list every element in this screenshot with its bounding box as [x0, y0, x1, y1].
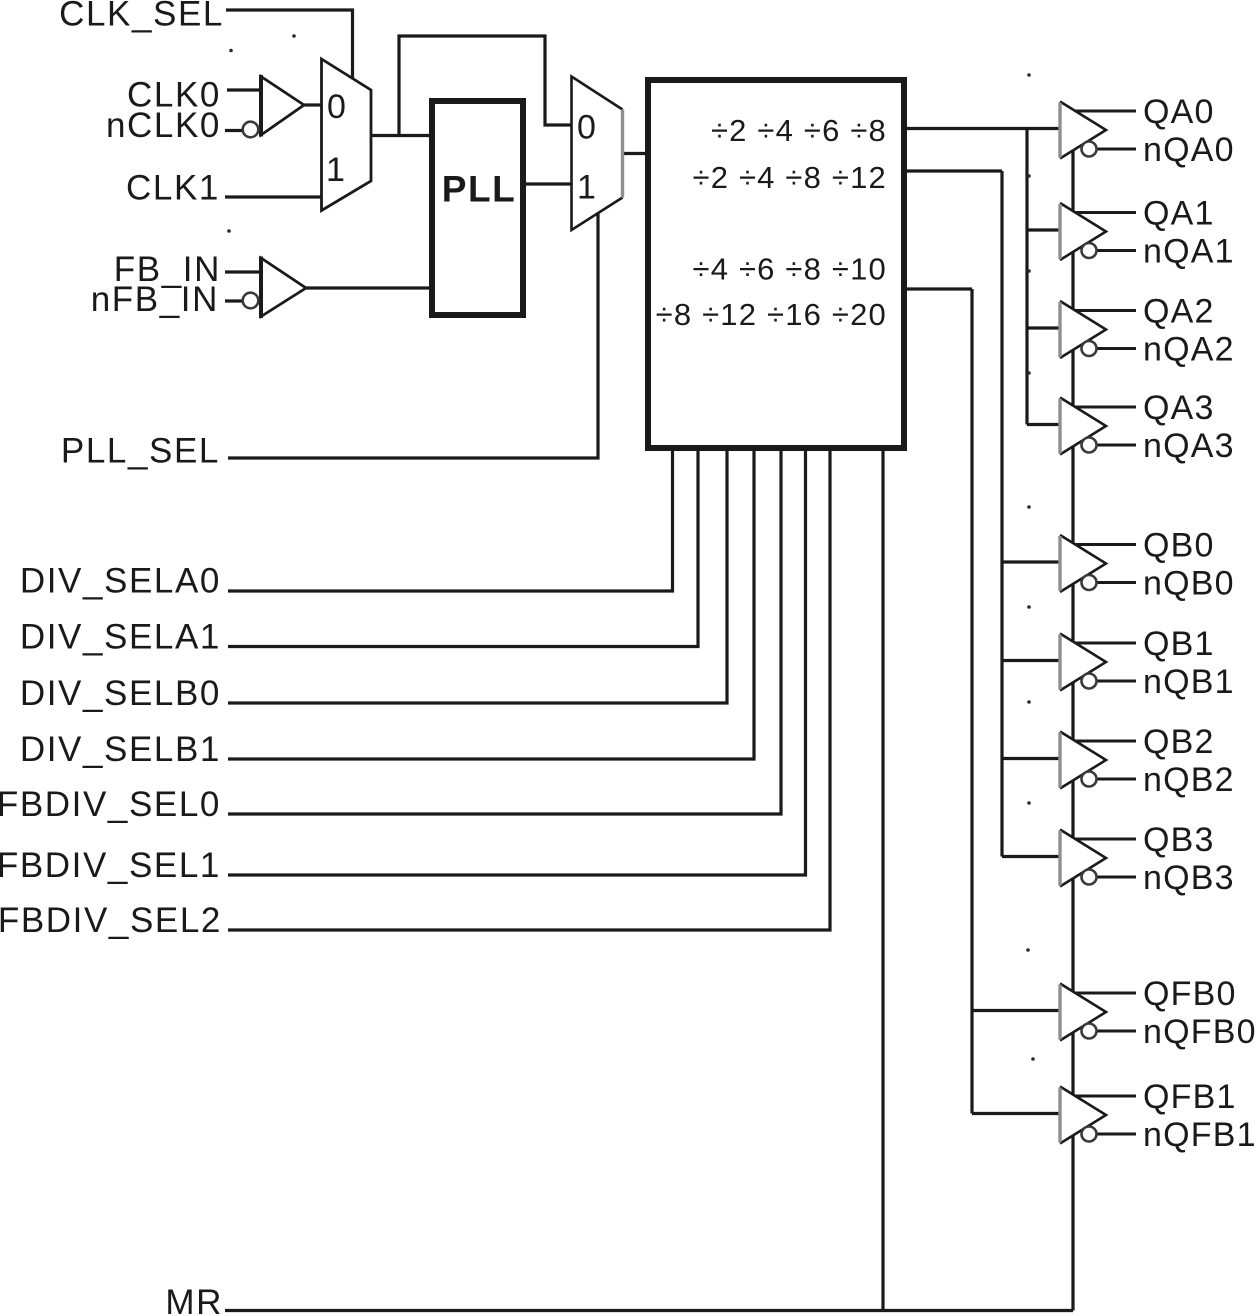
inverting bubble U2 — [243, 293, 259, 309]
output buffer QA3 — [1060, 398, 1136, 455]
wire bus A tap QA3 — [1027, 423, 1060, 426]
wire bus B tap QB2 — [1002, 757, 1060, 760]
svg-text:FBDIV_SEL2: FBDIV_SEL2 — [0, 901, 222, 940]
wire divider feedback output — [905, 287, 972, 290]
svg-text:nQB1: nQB1 — [1143, 663, 1235, 701]
svg-text:nQB2: nQB2 — [1143, 761, 1235, 799]
output buffer QFB0 — [1060, 984, 1136, 1041]
mux U5 (PLL bypass mux) — [572, 77, 623, 231]
wire bus FB vertical — [970, 289, 973, 1114]
wire bus B vertical — [1000, 171, 1003, 857]
wire bus B tap QB3 — [1002, 855, 1060, 858]
wire DIV_SELA0 to divider — [228, 450, 673, 591]
svg-text:FBDIV_SEL1: FBDIV_SEL1 — [0, 846, 221, 885]
wire bus FB tap QFB0 — [972, 1009, 1060, 1012]
output buffer QB1 — [1060, 634, 1136, 691]
svg-text:QFB1: QFB1 — [1143, 1078, 1237, 1116]
wire CLK1 input to mux1 — [225, 195, 322, 198]
svg-text:DIV_SELA1: DIV_SELA1 — [20, 618, 221, 657]
wire bus A tap QA1 — [1027, 228, 1060, 231]
PLL block U4 — [432, 101, 523, 315]
wire nCLK0 input — [225, 129, 244, 132]
svg-text:QA0: QA0 — [1143, 93, 1215, 131]
inverting bubble U1 — [243, 122, 259, 138]
output buffer QA2 — [1060, 301, 1136, 358]
svg-text:PLL: PLL — [442, 169, 516, 210]
output buffer QB0 — [1060, 535, 1136, 592]
wire MR to divider block — [881, 450, 884, 1311]
wire PLL bypass loop to mux2 input 0 — [399, 36, 572, 136]
svg-text:nQA1: nQA1 — [1143, 233, 1235, 271]
svg-text:÷2 ÷4 ÷8 ÷12: ÷2 ÷4 ÷8 ÷12 — [693, 160, 888, 195]
wire MR horizontal — [225, 1309, 1073, 1312]
svg-text:nQFB0: nQFB0 — [1143, 1013, 1256, 1051]
svg-text:CLK1: CLK1 — [126, 169, 220, 208]
wire divider bank B output — [905, 169, 1002, 172]
input buffer U1 CLK0/nCLK0 — [261, 75, 304, 137]
output buffer QA0 — [1060, 102, 1136, 159]
speck dots (scan artifacts) — [227, 34, 1035, 1061]
svg-text:QB1: QB1 — [1143, 625, 1215, 663]
output buffer QFB1 — [1060, 1087, 1136, 1144]
wire input buffer U1 output to mux1 — [304, 103, 322, 106]
svg-text:nFB_IN: nFB_IN — [91, 280, 219, 319]
wire bus A tap QA2 — [1027, 326, 1060, 329]
input buffer U2 FB_IN/nFB_IN — [261, 257, 306, 319]
svg-text:nCLK0: nCLK0 — [106, 106, 221, 145]
svg-text:QB2: QB2 — [1143, 723, 1215, 761]
svg-text:CLK_SEL: CLK_SEL — [59, 0, 224, 34]
svg-text:nQFB1: nQFB1 — [1143, 1116, 1256, 1154]
wire PLL_SEL to mux2 select — [228, 212, 598, 458]
svg-text:0: 0 — [327, 88, 346, 126]
wire MR riser to output buffers — [1071, 150, 1074, 1311]
wire FBDIV_SEL0 to divider — [228, 450, 781, 814]
wire bus B tap QB0 — [1002, 560, 1060, 563]
wire divider bank A output to QA0 — [905, 127, 1060, 130]
wire mux1 output to PLL — [371, 134, 432, 137]
svg-text:DIV_SELA0: DIV_SELA0 — [20, 562, 221, 601]
output buffer QA1 — [1060, 203, 1136, 260]
wire DIV_SELB1 to divider — [228, 450, 754, 759]
output buffer QB2 — [1060, 732, 1136, 789]
svg-text:QB0: QB0 — [1143, 527, 1215, 565]
wire input buffer U2 output to PLL feedback — [306, 286, 432, 289]
wire FBDIV_SEL1 to divider — [228, 450, 806, 875]
svg-text:nQB0: nQB0 — [1143, 565, 1235, 603]
svg-text:nQA0: nQA0 — [1143, 131, 1235, 169]
svg-text:0: 0 — [577, 109, 596, 147]
svg-text:÷8 ÷12 ÷16 ÷20: ÷8 ÷12 ÷16 ÷20 — [656, 297, 887, 332]
mux U3 (reference clock mux) — [322, 59, 372, 211]
svg-text:FBDIV_SEL0: FBDIV_SEL0 — [0, 785, 221, 824]
wire DIV_SELA1 to divider — [228, 450, 698, 647]
svg-text:QA1: QA1 — [1143, 195, 1215, 233]
wire bus A vertical — [1025, 129, 1028, 425]
svg-text:PLL_SEL: PLL_SEL — [61, 432, 220, 471]
svg-text:nQB3: nQB3 — [1143, 859, 1235, 897]
svg-text:MR: MR — [165, 1283, 223, 1316]
wire CLK0 input — [227, 88, 262, 91]
wire FB_IN input — [225, 270, 262, 273]
svg-text:÷4 ÷6 ÷8 ÷10: ÷4 ÷6 ÷8 ÷10 — [693, 252, 888, 287]
svg-text:QA3: QA3 — [1143, 389, 1215, 427]
svg-text:DIV_SELB1: DIV_SELB1 — [20, 730, 221, 769]
divider block U6 — [648, 80, 904, 448]
wire nFB_IN input — [225, 299, 244, 302]
svg-text:QB3: QB3 — [1143, 821, 1215, 859]
wire FBDIV_SEL2 to divider — [228, 450, 830, 930]
wire DIV_SELB0 to divider — [228, 450, 727, 703]
svg-text:1: 1 — [326, 151, 345, 189]
wire bus B tap QB1 — [1002, 659, 1060, 662]
wire bus FB tap QFB1 — [972, 1112, 1060, 1115]
wire mux2 output to divider block — [622, 152, 649, 155]
wire PLL output to mux2 input 1 — [525, 182, 572, 185]
svg-text:nQA2: nQA2 — [1143, 331, 1235, 369]
svg-text:DIV_SELB0: DIV_SELB0 — [20, 674, 221, 713]
svg-text:nQA3: nQA3 — [1143, 427, 1235, 465]
wire CLK_SEL to mux1 select — [226, 10, 353, 81]
svg-text:QFB0: QFB0 — [1143, 975, 1237, 1013]
svg-text:1: 1 — [577, 169, 596, 207]
svg-text:QA2: QA2 — [1143, 293, 1215, 331]
svg-text:÷2 ÷4 ÷6 ÷8: ÷2 ÷4 ÷6 ÷8 — [711, 113, 887, 148]
output buffer QB3 — [1060, 830, 1136, 887]
